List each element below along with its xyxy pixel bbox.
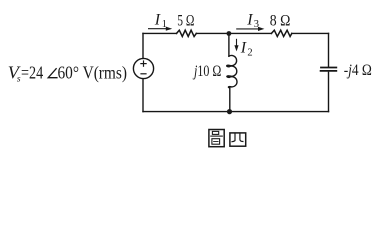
wire left upper	[142, 33, 144, 58]
current arrow I1	[148, 27, 172, 31]
resistor R2 8ohm zigzag	[271, 30, 291, 36]
current arrow I3	[236, 27, 264, 31]
svg-text:I: I	[246, 11, 253, 28]
svg-text:8 Ω: 8 Ω	[270, 12, 291, 29]
caption Figure 4 (Chinese TU)	[209, 130, 224, 147]
svg-text:2: 2	[247, 47, 252, 58]
wire top-right segment	[292, 32, 329, 34]
wire left lower	[142, 79, 144, 112]
wire bottom	[143, 111, 329, 113]
svg-text:I: I	[240, 40, 247, 57]
svg-text:=24: =24	[21, 63, 43, 83]
svg-text:1: 1	[162, 19, 167, 30]
svg-text:j10 Ω: j10 Ω	[192, 63, 221, 80]
wire top-middle segment	[196, 32, 271, 34]
svg-text:60° V(rms): 60° V(rms)	[58, 63, 128, 84]
svg-text:5 Ω: 5 Ω	[177, 12, 194, 29]
voltage source plus sign	[141, 61, 146, 66]
voltage source Vs circle	[133, 58, 153, 78]
node A top junction dot	[227, 31, 232, 36]
svg-text:-j4 Ω: -j4 Ω	[344, 62, 372, 79]
voltage source minus sign	[141, 73, 146, 75]
wire top-left segment	[143, 32, 177, 34]
capacitor C1 -j4ohm plates	[321, 68, 337, 71]
wire middle upper	[228, 34, 230, 57]
wire right upper	[328, 33, 330, 66]
svg-text:3: 3	[254, 19, 259, 30]
wire right lower	[328, 72, 330, 111]
resistor R1 5ohm zigzag	[177, 30, 197, 36]
inductor L1 j10ohm coil	[227, 55, 237, 87]
caption Figure 4 (Chinese SI)	[230, 133, 246, 146]
svg-text:I: I	[154, 11, 161, 28]
current arrow I2	[234, 39, 238, 52]
wire middle lower	[229, 88, 231, 112]
angle symbol of source label	[48, 68, 57, 78]
node B bottom junction dot	[227, 109, 232, 114]
